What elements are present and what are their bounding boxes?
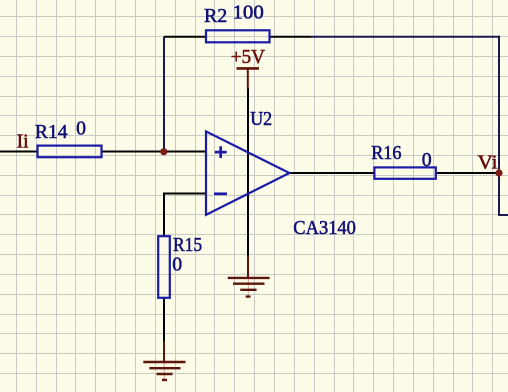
power +5V bar <box>237 67 260 70</box>
wire: R2 right lead <box>269 36 311 38</box>
wire: feedback vertical to node (navy) <box>163 37 165 152</box>
ground under R15: pin stub <box>163 341 165 362</box>
ground under op-amp: thin center <box>247 277 249 297</box>
junction node at output Vi <box>495 169 502 176</box>
ground under R15: bars <box>143 362 185 380</box>
svg-text:CA3140: CA3140 <box>293 217 356 239</box>
svg-text:Ii: Ii <box>17 130 29 152</box>
svg-text:R16: R16 <box>371 142 401 164</box>
wire: minus input down to R15 <box>163 193 165 238</box>
svg-text:0: 0 <box>172 253 182 275</box>
svg-text:0: 0 <box>422 149 432 171</box>
wire: left input to R14 <box>0 151 38 153</box>
wire: +5V down through op-amp to ground <box>247 88 249 257</box>
op-amp - input mark <box>214 192 227 195</box>
ground under op-amp: pin stub <box>247 256 249 278</box>
svg-text:R14: R14 <box>35 121 68 143</box>
op-amp + input mark <box>215 146 227 158</box>
wire: to R2 left <box>164 36 207 38</box>
junction node at + input <box>160 148 167 155</box>
wire: right vertical feedback (navy) <box>498 36 500 216</box>
wire: R15 bottom to ground <box>163 297 165 342</box>
wire: R14 to op-amp + input (through node) <box>101 151 206 153</box>
wire: op-amp output to R16 <box>289 172 375 174</box>
svg-text:0: 0 <box>76 118 86 140</box>
resistor R16 <box>374 167 435 178</box>
svg-text:R2: R2 <box>204 5 227 27</box>
ground under R15: thin center <box>163 361 165 380</box>
power +5V pin stub <box>247 69 249 90</box>
wire: R16 to Vi node <box>435 172 499 174</box>
svg-text:Vi: Vi <box>478 151 499 173</box>
wire: top feedback run (navy) <box>311 36 500 38</box>
op-amp U2 triangle <box>206 131 289 214</box>
ground under op-amp: bars <box>228 278 270 297</box>
svg-text:100: 100 <box>233 2 264 24</box>
svg-text:U2: U2 <box>250 108 272 130</box>
wire: bottom right exit (navy) <box>498 214 508 216</box>
wire: op-amp - input <box>164 193 206 195</box>
resistor R14 <box>38 146 102 158</box>
svg-text:+5V: +5V <box>231 46 266 68</box>
resistor R2 <box>206 30 270 42</box>
resistor R15 <box>158 236 170 298</box>
